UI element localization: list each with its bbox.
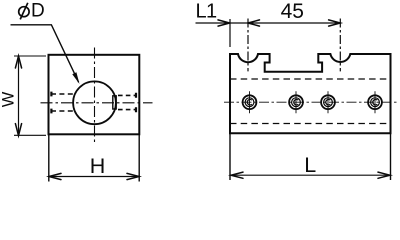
svg-text:H: H [90,154,106,178]
part left edge extension up [229,19,231,47]
holes centerline horizontal [224,101,397,103]
horizontal centerline of bore [41,102,153,104]
H dimension extension lines [49,134,139,181]
right hole end ticks [135,93,137,112]
W arrow up [15,56,21,68]
right view body outline with T-slot top profile [230,54,391,133]
vertical centerline of bore [94,48,96,145]
svg-text:L: L [304,153,316,177]
svg-text:L1: L1 [196,1,218,23]
H arrow right [127,173,139,179]
hidden hole right side: lower dashed line [118,109,137,111]
45 right arrow (pointing right) [329,20,341,26]
bore circle phi D [73,81,116,124]
H dimension line [49,176,140,178]
svg-text:W: W [0,91,18,107]
W dimension line [18,56,20,136]
hidden hole left side: lower dashed line [51,110,73,112]
left view body (square block) [49,55,140,135]
L arrow right [378,172,390,178]
notch 1 centerline [247,19,249,72]
L1 leader-in line [196,22,248,24]
hidden hole left side: upper dashed line [51,93,73,95]
W dimension extension lines [14,56,46,135]
45 dimension line [248,22,340,24]
screw hole 2 [289,91,303,113]
hidden bore top line [230,78,391,80]
screw hole 4 [368,91,382,113]
45 left arrow (pointing left) [248,20,260,26]
H arrow left [49,173,61,179]
svg-text:45: 45 [281,0,304,23]
L dimension line [231,174,390,176]
L dimension extension lines [230,133,391,180]
L1 left arrow (pointing right) [218,20,230,26]
left hole end ticks [50,92,52,114]
leader line to bore [11,25,79,82]
notch 2 centerline [339,19,341,72]
leader arrowhead [72,72,79,84]
label phi-D [19,3,29,20]
hidden hole right side: upper dashed line [118,94,137,96]
L arrow left [231,172,243,178]
screw hole 1 [243,91,257,113]
screw hole 3 [321,91,335,113]
W arrow down [15,124,21,136]
hidden bore bottom line [230,123,391,125]
svg-text:D: D [31,1,45,22]
set screw seat rectangle in bore [113,96,116,109]
